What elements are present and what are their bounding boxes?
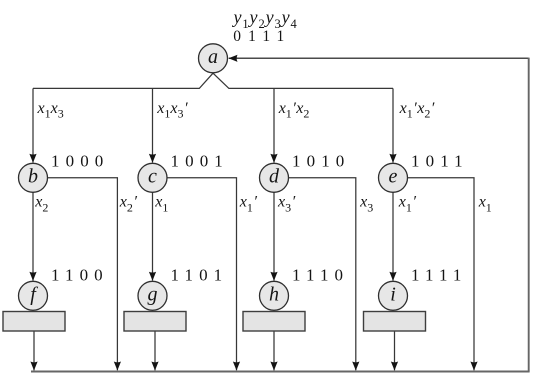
svg-text:x1′: x1′ [239,194,258,215]
wire branch e right then down to bus [408,178,475,370]
svg-text:x1x3: x1x3 [37,100,64,121]
wire arrow c to g [152,192,154,280]
output box under h [243,312,305,332]
wire arrow b to f [32,192,34,280]
svg-text:d: d [269,166,280,188]
wire arrow a to c [152,88,154,162]
wire arrow h box to bus [273,331,275,370]
svg-text:a: a [208,46,218,68]
svg-text:x1x3′: x1x3′ [156,100,188,121]
node g [138,281,167,310]
wire fan-out tent from node a to top bus [33,73,393,88]
svg-text:x1′x2′: x1′x2′ [399,100,435,121]
node h [260,281,289,310]
svg-text:x2′: x2′ [119,194,138,215]
wire arrow d to h [273,192,275,280]
svg-text:1010: 1010 [292,151,350,170]
node d [260,163,289,192]
svg-text:x1′: x1′ [398,194,417,215]
svg-text:1000: 1000 [51,151,109,170]
wire arrow f box to bus [33,331,35,370]
svg-text:c: c [148,166,157,188]
svg-text:1001: 1001 [171,151,229,170]
svg-text:1111: 1111 [411,266,468,285]
svg-text:x2: x2 [34,194,48,215]
svg-text:x1: x1 [478,194,492,215]
wire branch c right then down to bus [167,178,237,370]
wire branch b right then down to bus [48,178,118,370]
wire arrow g box to bus [154,331,156,370]
wire arrow a to d [273,88,275,162]
svg-text:0111: 0111 [233,28,291,45]
svg-text:x3: x3 [359,194,373,215]
svg-text:1110: 1110 [292,266,349,285]
wire arrow e to i [392,192,394,280]
wire feedback right vertical [528,58,530,372]
wire feedback top horizontal into node a [229,57,529,59]
node f [19,281,48,310]
svg-text:1101: 1101 [171,266,229,285]
svg-text:b: b [28,166,38,188]
node i [379,281,408,310]
node e [379,163,408,192]
node a [199,44,228,73]
svg-text:x1′x2: x1′x2 [278,100,310,121]
wire bottom bus [31,371,530,373]
svg-text:i: i [390,284,396,306]
svg-text:x3′: x3′ [277,194,296,215]
node b [19,163,48,192]
svg-text:x1: x1 [154,194,168,215]
node c [138,163,167,192]
svg-text:g: g [148,284,158,306]
wire arrow a to e [392,88,394,162]
output box under g [124,312,186,332]
wire arrow i box to bus [394,331,396,370]
svg-text:1100: 1100 [51,266,109,285]
output box under i [364,312,426,332]
svg-text:e: e [389,166,398,188]
svg-text:1011: 1011 [411,151,469,170]
wire branch d right then down to bus [289,178,356,370]
svg-text:h: h [269,284,279,306]
wire arrow a to b [32,88,34,162]
output box under f [3,312,65,332]
